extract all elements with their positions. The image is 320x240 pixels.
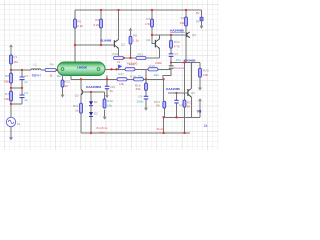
resistor R18 (135, 83, 148, 91)
wire C10 column (106, 79, 108, 95)
capacitor C4 (174, 100, 183, 107)
wire R8 to y58 (130, 44, 132, 58)
node dot y79-x146 (145, 78, 147, 80)
wire mid row y69.3 (105, 68, 171, 70)
svg-text:10k: 10k (203, 73, 208, 77)
resistor R3 (4, 91, 12, 101)
svg-text:4u: 4u (57, 74, 61, 78)
wire y79 row right (117, 78, 164, 80)
wire input row y70 (11, 69, 58, 71)
node dot y69 b (115, 68, 117, 70)
svg-text:Q3: Q3 (75, 94, 79, 98)
wire R5 column (74, 10, 76, 62)
AC source S1 (6, 117, 21, 126)
svg-text:56: 56 (187, 105, 191, 109)
svg-text:R7: R7 (146, 17, 150, 21)
svg-text:100u: 100u (137, 99, 144, 103)
ground arrow top right (200, 26, 204, 29)
resistor R20 (199, 68, 209, 77)
wire C2 column (21, 88, 23, 104)
svg-text:10u: 10u (154, 73, 159, 77)
svg-text:R11: R11 (73, 104, 79, 108)
wire row y117 (164, 101, 200, 117)
svg-text:R13: R13 (138, 52, 144, 56)
capacitor C1 (20, 74, 29, 84)
node dot R1-R2 (10, 69, 12, 71)
wire Q4 base (152, 35, 155, 43)
wire top rail (75, 9, 202, 11)
transistor Q6 (186, 32, 196, 38)
wire R3 column (10, 88, 12, 104)
wire battery column top right (201, 10, 203, 26)
wire R2 column (10, 70, 12, 88)
wire to source (10, 104, 12, 117)
svg-text:R10: R10 (107, 99, 113, 103)
ground arrow mid (103, 117, 107, 120)
wire R20 column (199, 63, 201, 88)
wire Q3 base row y92 (83, 91, 105, 93)
svg-text:100: 100 (132, 62, 137, 66)
node dot x163-y117 (162, 116, 164, 118)
wire R7 column (151, 10, 153, 35)
svg-text:R12: R12 (112, 52, 118, 56)
resistor R21 (183, 100, 193, 109)
wire R21 column (184, 63, 186, 134)
resistor R8 (129, 33, 139, 44)
wire x171 column (170, 35, 172, 63)
wire Q3 emitter column (80, 95, 82, 133)
wire Q5 base (168, 92, 187, 94)
node dot y58 R12 (123, 57, 125, 59)
wire source to ground (10, 127, 12, 138)
svg-text:R8: R8 (133, 33, 137, 37)
svg-text:Q5: Q5 (191, 91, 195, 95)
resistor R22 (61, 79, 70, 87)
resistor R12 (112, 52, 123, 64)
node dot R21 top (183, 61, 185, 63)
wire base row y45 (75, 44, 114, 46)
inductor L1 (31, 62, 41, 77)
ground arrow x200 (198, 88, 202, 91)
svg-text:R9: R9 (181, 16, 185, 20)
battery B1 (196, 17, 203, 23)
node dot y117 C4 (175, 116, 177, 118)
wire pill pin1 branch (62, 76, 64, 95)
node dot base C4 (175, 92, 177, 94)
svg-text:R2: R2 (5, 74, 9, 78)
ground arrow pill branch (61, 95, 65, 98)
svg-text:Probe1: Probe1 (174, 66, 184, 70)
svg-text:VB: VB (197, 109, 202, 113)
supply arrow up left (9, 44, 13, 55)
wire R9 column right (185, 10, 187, 63)
svg-text:100k: 100k (155, 61, 162, 65)
wire C1 column (21, 70, 23, 88)
svg-text:1k: 1k (117, 60, 121, 64)
supply arrow up right (198, 98, 202, 101)
svg-text:D2: D2 (94, 112, 98, 116)
svg-text:R20: R20 (203, 68, 209, 72)
svg-text:R5: R5 (77, 19, 81, 23)
node dot y88 left (10, 87, 12, 89)
svg-text:C7: C7 (174, 52, 178, 56)
svg-text:R17: R17 (118, 72, 124, 76)
svg-text:1.5k: 1.5k (145, 22, 151, 26)
node dot rail-Q1 (117, 9, 119, 11)
wire Q1 emitter (118, 49, 120, 57)
wire mid row y35 (152, 34, 186, 36)
svg-text:R3: R3 (5, 92, 9, 96)
node dot rail-R6 (100, 9, 102, 11)
node dot y79-x163 (162, 78, 164, 80)
transistor Q4 (146, 35, 160, 49)
svg-text:Q4: Q4 (146, 38, 150, 42)
resistor R14 (130, 74, 144, 80)
resistor R11 (73, 103, 82, 113)
node dot R8-y58 (129, 57, 131, 59)
capacitor C7 (169, 52, 182, 62)
wire row y104 (11, 103, 22, 105)
diode D2 (89, 112, 98, 117)
capacitor C2 (20, 91, 29, 102)
wire Q5 emitter (190, 97, 192, 117)
svg-text:C2: C2 (24, 91, 28, 95)
ground arrow x146 (144, 108, 148, 111)
svg-text:3mA: 3mA (157, 127, 164, 131)
supply arrow up mid (129, 28, 133, 37)
wire row y88 (11, 87, 22, 89)
transistor Q3 (75, 89, 83, 97)
svg-text:KA3406B: KA3406B (166, 87, 180, 91)
svg-text:10k: 10k (4, 97, 9, 101)
svg-text:4.7k: 4.7k (174, 44, 180, 48)
resistor R7 (145, 17, 153, 27)
svg-text:KA340B: KA340B (184, 58, 197, 62)
svg-text:10: 10 (64, 84, 68, 88)
svg-text:39k: 39k (136, 87, 141, 91)
svg-text:68mH: 68mH (32, 74, 41, 78)
svg-text:1k: 1k (49, 73, 53, 77)
resistor R10 (103, 99, 113, 108)
resistor R9 (180, 16, 188, 26)
transistor Q1 (114, 40, 126, 49)
wire Q3 collector (80, 79, 82, 89)
wire C4 column (176, 93, 178, 117)
svg-text:KL9408: KL9408 (100, 39, 111, 43)
resistor R5 (74, 19, 84, 28)
node dot y45 R5 (74, 44, 76, 46)
resistor R2 (4, 73, 12, 83)
svg-text:1k: 1k (75, 109, 79, 113)
svg-text:1.1k: 1.1k (133, 38, 139, 42)
svg-text:R1: R1 (13, 55, 17, 59)
svg-text:10u: 10u (107, 103, 112, 107)
svg-text:Q6: Q6 (192, 33, 196, 37)
resistor R19 (170, 40, 181, 48)
svg-text:S1: S1 (17, 122, 21, 126)
probe capacitor (169, 66, 185, 70)
svg-text:2.2k: 2.2k (77, 24, 83, 28)
part label KA3408B (170, 29, 185, 33)
wire R10 column (104, 92, 106, 117)
wire x163 column (163, 79, 166, 133)
svg-text:LM08K: LM08K (77, 65, 88, 69)
node dot below pill right (106, 78, 108, 80)
resistor R4 (45, 62, 56, 77)
svg-text:R6: R6 (95, 18, 99, 22)
wire x146 chain (145, 69, 147, 108)
selected component U1 green pill (58, 62, 106, 76)
node dot base-D1 (90, 91, 92, 93)
svg-text:56k: 56k (4, 79, 9, 83)
svg-text:KA3408B1: KA3408B1 (86, 85, 102, 89)
node dot rail-R7 (151, 9, 153, 11)
node dot rail-R9 (185, 9, 187, 11)
node dot y35 right (170, 34, 172, 36)
resistor R23 (154, 100, 166, 108)
resistor R15 (125, 62, 138, 71)
node dot bottom D2 (90, 132, 92, 134)
svg-text:1u: 1u (24, 80, 28, 84)
wire R6 column (100, 10, 102, 45)
svg-text:KA3408B: KA3408B (170, 29, 184, 33)
svg-text:15k: 15k (180, 21, 185, 25)
svg-text:C9: C9 (138, 95, 142, 99)
svg-text:56: 56 (156, 104, 160, 108)
wire x171 to corner (163, 63, 171, 80)
wire loop below pill (71, 76, 117, 80)
diode D1 (89, 100, 98, 106)
svg-text:R14: R14 (130, 74, 136, 78)
node dot C1 top (21, 69, 23, 71)
node dot y104 (10, 103, 12, 105)
svg-text:75u: 75u (138, 74, 143, 78)
node dot y35 left (151, 34, 153, 36)
svg-text:0m 8ms: 0m 8ms (96, 126, 107, 130)
svg-text:47u: 47u (176, 58, 181, 62)
resistor R6 (93, 18, 102, 28)
svg-text:R4: R4 (50, 62, 54, 66)
resistor R13 (129, 52, 146, 65)
wire R1 to node (10, 64, 12, 70)
node dot y69 a (110, 68, 112, 70)
capacitor C10 (105, 85, 116, 93)
resistor R17 (117, 72, 127, 86)
transistor Q5 (187, 63, 195, 98)
ground arrow C10 (105, 95, 109, 98)
node dot x171-y62 (170, 61, 172, 63)
node dot R21 bottom (183, 132, 185, 134)
wire y58 row (124, 49, 160, 58)
resistor R16 (148, 61, 162, 77)
svg-text:R22: R22 (64, 79, 70, 83)
svg-text:10k: 10k (119, 82, 124, 86)
svg-text:2.2k: 2.2k (93, 23, 99, 27)
svg-text:D1: D1 (94, 100, 98, 104)
node dot y45 R6 (100, 44, 102, 46)
wire row y62.5 (171, 62, 200, 64)
svg-text:L1: L1 (33, 62, 37, 66)
node dot x163-y133 (162, 132, 164, 134)
svg-text:Q1: Q1 (121, 43, 125, 47)
resistor R1 (10, 55, 19, 64)
node dot below pill left (80, 78, 82, 80)
svg-text:4ms: 4ms (99, 131, 105, 135)
svg-text:C1: C1 (24, 74, 28, 78)
svg-text:1u: 1u (24, 98, 28, 102)
svg-text:1M: 1M (13, 60, 18, 64)
svg-text:5u: 5u (110, 89, 114, 93)
wire D1 D2 column (90, 92, 92, 133)
wire bottom row y133 (81, 132, 190, 134)
node dot y88 right (21, 87, 23, 89)
svg-text:24: 24 (204, 124, 208, 128)
ground arrow bottom left (9, 137, 13, 140)
node dot input-pill (56, 69, 58, 71)
wire Q1 collector (118, 10, 120, 40)
probe flag (118, 64, 122, 69)
capacitor C9 (137, 95, 149, 104)
